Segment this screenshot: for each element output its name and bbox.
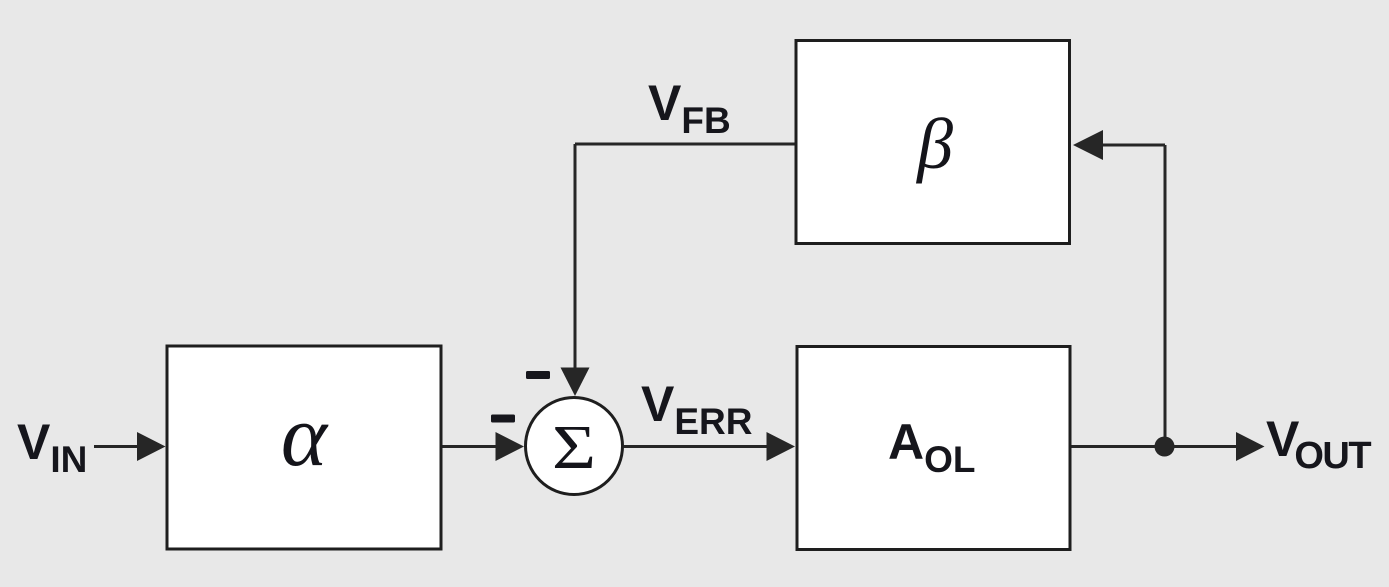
minus sign top input <box>526 371 550 379</box>
wire Vfb vertical down to summer <box>561 144 590 396</box>
block beta <box>796 41 1070 244</box>
block alpha <box>167 346 441 549</box>
summing junction <box>526 398 623 495</box>
wire AOL to Vout <box>1072 432 1265 461</box>
wire alpha to summer <box>443 432 525 461</box>
svg-text:Σ: Σ <box>552 414 596 482</box>
block AOL <box>797 347 1070 550</box>
svg-text:β: β <box>915 104 953 184</box>
minus sign left input <box>491 415 515 423</box>
junction node dot <box>1155 437 1175 457</box>
wire Vin to alpha <box>94 432 166 461</box>
wire feedback vertical right <box>1164 145 1167 447</box>
svg-text:α: α <box>281 388 329 485</box>
wire Vfb horizontal <box>575 143 795 146</box>
wire summer to AOL <box>624 432 796 461</box>
wire into beta <box>1073 130 1165 160</box>
